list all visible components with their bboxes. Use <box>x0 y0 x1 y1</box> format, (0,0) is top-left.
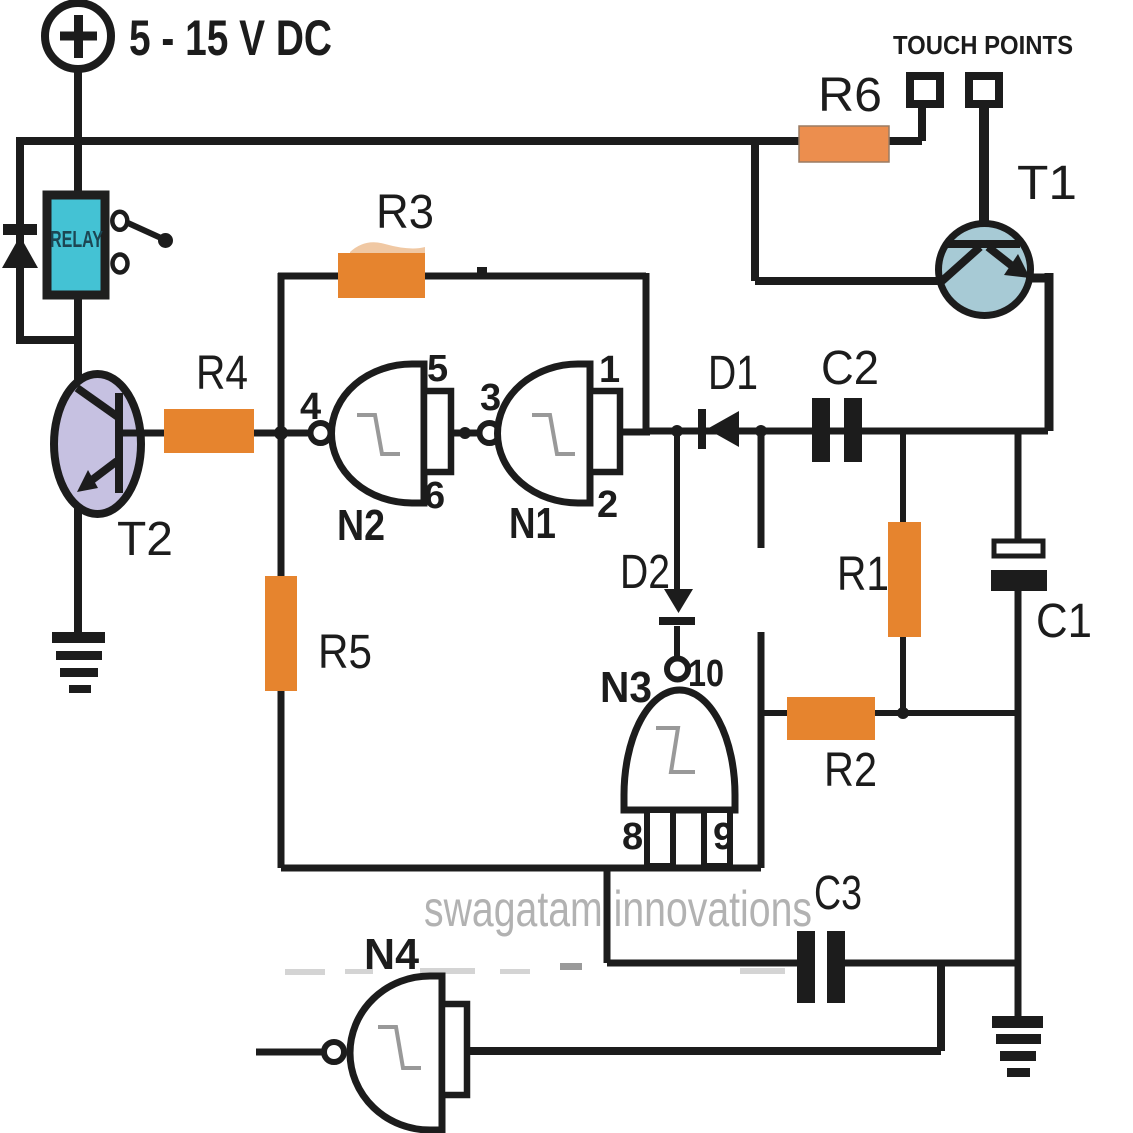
wire: branch to T1 from supply rail x=755 <box>755 141 944 281</box>
NAND gate N1 (Schmitt) <box>480 364 621 503</box>
label R1 <box>837 548 889 601</box>
svg-text:N1: N1 <box>509 499 556 548</box>
svg-text:RELAY: RELAY <box>50 226 103 252</box>
label N4 <box>364 930 420 979</box>
label R4 <box>196 347 248 400</box>
svg-text:R4: R4 <box>196 347 248 400</box>
label T2 <box>117 513 173 566</box>
junction tick on top rail <box>477 267 487 278</box>
svg-text:N2: N2 <box>337 501 385 550</box>
svg-text:5 - 15 V DC: 5 - 15 V DC <box>129 10 332 66</box>
svg-text:C1: C1 <box>1036 595 1092 648</box>
ground symbol at T2 emitter <box>52 632 105 693</box>
wire: flyback diode branch left of relay <box>16 137 78 340</box>
relay switch contacts <box>112 212 173 273</box>
NAND gate N3 (Schmitt) <box>624 659 735 867</box>
label R2 <box>824 744 877 797</box>
wire: rail corner up to touch point 1 <box>918 103 926 141</box>
wire: R1 drop from main rail <box>900 431 906 713</box>
resistor R4 <box>164 409 254 453</box>
label R6 <box>818 69 882 122</box>
wire: C3 to ground column <box>843 960 1018 967</box>
label C1 <box>1036 595 1092 648</box>
watermark swagatam innovations <box>424 881 812 937</box>
svg-text:TOUCH POINTS: TOUCH POINTS <box>893 30 1073 60</box>
junction dot between N1 and N2 <box>459 427 471 439</box>
svg-text:T1: T1 <box>1017 157 1077 210</box>
wire: feedback box right vertical x=646 <box>643 273 650 432</box>
pin 4 of N2 <box>300 386 321 428</box>
touch point 2 <box>969 76 999 104</box>
erased label wisp above R3 <box>350 242 425 253</box>
svg-text:R3: R3 <box>376 186 434 239</box>
NAND gate N4 (Schmitt) <box>324 976 467 1130</box>
svg-text:4: 4 <box>300 386 321 428</box>
svg-text:R1: R1 <box>837 548 889 601</box>
svg-text:N4: N4 <box>364 930 420 979</box>
junction of D2 branch on main rail <box>671 425 683 437</box>
pin 3 of N1 <box>480 377 501 419</box>
wire: feedback box left vertical x=281 <box>278 273 285 868</box>
diode D1 <box>698 409 739 449</box>
wire: R2 rail y=713 <box>761 710 1018 716</box>
wire: drop from bottom rail to C3 rail <box>607 868 799 963</box>
wire: main node rail y=431 from box to T1 drop <box>646 428 1048 435</box>
svg-text:1: 1 <box>599 349 620 391</box>
svg-text:R6: R6 <box>818 69 882 122</box>
pin 6 of N2 <box>424 475 445 517</box>
junction of N3/R2 branch on main rail <box>755 425 767 437</box>
svg-text:5: 5 <box>427 348 448 390</box>
wire: N1 input pins to right vertical <box>620 429 650 436</box>
svg-text:N3: N3 <box>600 663 652 712</box>
label R5 <box>318 626 372 679</box>
svg-text:R2: R2 <box>824 744 877 797</box>
svg-text:3: 3 <box>480 377 501 419</box>
resistor R1 <box>888 522 921 637</box>
label T1 <box>1017 157 1077 210</box>
svg-text:R5: R5 <box>318 626 372 679</box>
NAND gate N2 (Schmitt) <box>311 364 452 503</box>
svg-text:8: 8 <box>622 816 643 858</box>
capacitor C2 <box>812 398 862 462</box>
svg-text:6: 6 <box>424 475 445 517</box>
watermark remnant dashes <box>285 963 785 975</box>
pin 5 of N2 <box>427 348 448 390</box>
wire: N4 input stub <box>256 1049 323 1056</box>
diode D3 flyback across relay coil <box>2 224 38 268</box>
wire: T1 emitter to main rail corner <box>1026 273 1054 431</box>
diode D2 <box>659 589 695 625</box>
resistor R5 <box>265 576 297 691</box>
wire: relay coil bottom to T2 collector x=78 <box>74 295 82 380</box>
svg-text:9: 9 <box>713 816 734 858</box>
svg-text:C2: C2 <box>821 342 879 395</box>
pin 10 of N3 <box>688 653 724 695</box>
resistor R6 <box>799 126 889 162</box>
svg-text:2: 2 <box>597 484 618 526</box>
transistor T2 <box>54 374 141 514</box>
touch point 1 <box>910 76 940 104</box>
wire: touch point 2 to T1 base <box>979 104 989 245</box>
label 5 - 15 V DC <box>129 10 332 66</box>
pin 9 of N3 <box>713 816 734 858</box>
wire: supply drop from + terminal to rail x=78 <box>74 66 82 196</box>
pin 2 of N1 <box>597 484 618 526</box>
label N1 <box>509 499 556 548</box>
svg-text:D1: D1 <box>708 347 758 400</box>
junction at R4 / feedback box <box>274 426 288 440</box>
resistor R2 <box>787 697 875 740</box>
svg-text:D2: D2 <box>620 546 670 599</box>
wire: N4 output up to C3 rail <box>465 963 941 1051</box>
svg-text:T2: T2 <box>117 513 173 566</box>
label C3 <box>814 867 862 920</box>
label R3 <box>376 186 434 239</box>
wire: T2 base to R4 <box>121 430 166 437</box>
label N3 <box>600 663 652 712</box>
label N2 <box>337 501 385 550</box>
label C2 <box>821 342 879 395</box>
wire: D2 branch down from main rail <box>674 431 680 659</box>
pin 1 of N1 <box>599 349 620 391</box>
power supply + terminal <box>45 3 111 69</box>
wire: feedback box top rail y=276 with R3 <box>278 273 646 280</box>
wire: R4 to gate box node <box>254 430 312 437</box>
resistor R3 <box>338 253 425 298</box>
capacitor C1 (polarized) <box>991 541 1047 591</box>
transistor T1 <box>939 224 1031 316</box>
pin 8 of N3 <box>622 816 643 858</box>
capacitor C3 <box>797 931 845 1003</box>
wire: box bottom rail y=868 <box>281 865 761 872</box>
relay coil <box>47 195 105 295</box>
wire: top supply rail y=141 <box>16 137 922 145</box>
wire: N1 output to N2 input <box>451 430 481 437</box>
svg-text:swagatam innovations: swagatam innovations <box>424 881 812 937</box>
wire: C1 drop from main rail and down to ground <box>1015 431 1022 1020</box>
junction R1/R2 <box>897 707 909 719</box>
label D2 <box>620 546 670 599</box>
label D1 <box>708 347 758 400</box>
ground symbol bottom right <box>992 1016 1043 1077</box>
svg-text:10: 10 <box>688 653 724 695</box>
wire: T2 emitter to ground <box>74 508 82 634</box>
wire: vertical x=761 from main rail to box bottom (gap where erased) <box>758 431 765 868</box>
label TOUCH POINTS <box>893 30 1073 60</box>
svg-text:C3: C3 <box>814 867 862 920</box>
